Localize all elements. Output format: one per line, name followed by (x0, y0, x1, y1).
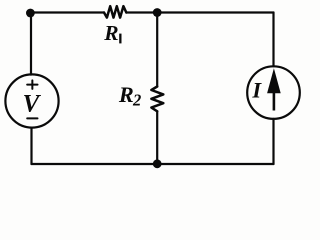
resistor R2 (151, 87, 163, 112)
wire middle vertical upper (node B to R2) (156, 13, 158, 87)
node C (bottom-middle junction dot) (153, 159, 162, 168)
wire left vertical lower (voltage source to bottom corner) (30, 128, 32, 164)
wire bottom horizontal (32, 163, 274, 165)
node B (top-middle junction dot) (153, 8, 162, 17)
current source I (circle) (247, 66, 300, 119)
plus sign inside voltage source (27, 80, 37, 89)
svg-text:R: R (103, 21, 118, 45)
resistor R1 (104, 6, 126, 17)
wire top-left horizontal (node A to R1) (30, 11, 104, 13)
node A (top-left junction dot) (26, 9, 35, 18)
wire left vertical upper (node A to voltage source) (30, 13, 32, 75)
voltage source V (circle) (5, 74, 58, 127)
svg-text:I: I (251, 77, 262, 102)
label R1 (103, 21, 121, 45)
wire right vertical lower (current source to bottom corner) (272, 119, 274, 164)
wire top-right horizontal (R1 to corner) (126, 11, 273, 13)
minus sign inside voltage source (27, 117, 37, 119)
wire right vertical upper (corner to current source) (272, 13, 274, 67)
svg-text:V: V (23, 91, 42, 118)
svg-text:R: R (118, 82, 134, 107)
svg-text:2: 2 (132, 91, 141, 110)
current source arrow (267, 68, 281, 110)
wire middle vertical lower (R2 to bottom node) (156, 111, 158, 164)
label R2 (118, 82, 141, 110)
